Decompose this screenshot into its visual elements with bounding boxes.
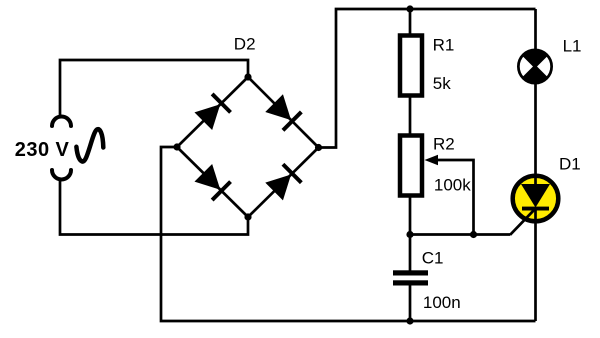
wire: R1 bottom to R2 top xyxy=(409,96,412,135)
svg-text:230 V: 230 V xyxy=(15,139,70,161)
lamp L1 body xyxy=(519,50,552,83)
node C1 bottom on rail xyxy=(406,317,413,324)
node right of bridge xyxy=(315,144,322,151)
capacitor C1 bottom plate xyxy=(393,280,428,285)
capacitor C1 top plate xyxy=(393,270,428,275)
wire: R2 bottom to gate node xyxy=(409,196,412,235)
wire: wiper to node xyxy=(436,160,474,235)
bridge D2 edge bottom-right xyxy=(248,148,319,218)
svg-text:C1: C1 xyxy=(422,249,444,268)
node top of bridge xyxy=(244,73,251,80)
svg-text:100n: 100n xyxy=(423,293,461,312)
svg-text:R1: R1 xyxy=(433,35,455,54)
node top rail R1 xyxy=(406,5,413,12)
wire: gate node toward thyristor gate xyxy=(410,233,510,236)
potentiometer R2 wiper arrow xyxy=(425,155,439,166)
wire: source top to bridge top node xyxy=(60,60,248,116)
node R2 bottom / C1 top xyxy=(406,231,413,238)
wire: lamp to thyristor anode xyxy=(534,83,537,184)
svg-text:5k: 5k xyxy=(433,74,451,93)
svg-text:D1: D1 xyxy=(559,154,581,173)
ac source V1 bottom arc xyxy=(52,170,71,180)
wire: bridge left node to bottom rail xyxy=(161,147,536,321)
node wiper junction xyxy=(470,231,477,238)
potentiometer R2 body xyxy=(400,136,422,196)
svg-text:D2: D2 xyxy=(234,34,256,53)
wire: thyristor cathode to bottom rail xyxy=(534,210,537,321)
node left of bridge xyxy=(173,143,180,150)
diode D2a (left node to top node) xyxy=(194,93,232,131)
wire: top rail to R1 top xyxy=(409,9,412,35)
bridge D2 edge top-right xyxy=(248,77,319,148)
svg-text:L1: L1 xyxy=(563,37,582,56)
svg-text:R2: R2 xyxy=(433,134,455,153)
bridge D2 edge bottom-left xyxy=(177,147,248,217)
node bottom of bridge xyxy=(244,213,251,220)
thyristor D1 body xyxy=(510,174,558,235)
wire: C1 bottom plate to bottom rail xyxy=(409,285,412,321)
diode D2b (top node to right node) xyxy=(265,94,303,132)
wire: node to C1 top plate xyxy=(409,235,412,272)
bridge D2 edge top-left xyxy=(177,77,248,147)
resistor R1 body xyxy=(400,36,422,96)
wire: bridge right node to top rail xyxy=(319,9,536,148)
wire: source bottom to bridge bottom node xyxy=(60,180,248,235)
diode D2d (bottom node to right node) xyxy=(265,163,303,201)
svg-text:100k: 100k xyxy=(434,175,471,194)
ac source V1 top arc xyxy=(52,117,71,127)
wire: top rail to lamp xyxy=(534,9,537,50)
sine wave symbol xyxy=(76,129,103,161)
diode D2c (left node to bottom node) xyxy=(194,164,232,202)
